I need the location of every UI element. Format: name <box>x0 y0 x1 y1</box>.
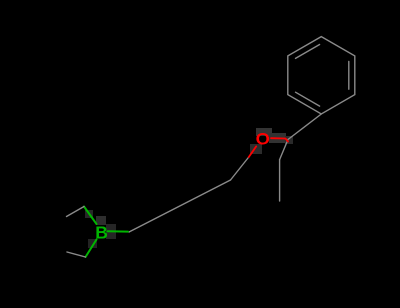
jpeg artifact blocks near O <box>250 128 293 154</box>
ring double bond inner line (right edge) <box>348 61 350 89</box>
lower ethyl terminal bond <box>67 252 86 257</box>
bond benzylic C to CH2 (down-left) <box>280 140 288 160</box>
svg-text:O: O <box>256 129 271 148</box>
svg-text:B: B <box>95 222 108 242</box>
bond B to lower ethyl CH2 <box>86 240 97 258</box>
upper ethyl terminal bond <box>67 207 85 217</box>
ring double bond inner line (UL-T) <box>296 45 320 59</box>
long chain bond to C1 <box>129 180 231 232</box>
bond B to C1 (green) <box>108 230 129 232</box>
jpeg artifact blocks near B <box>85 210 116 248</box>
bond B to upper ethyl CH2 <box>84 207 97 225</box>
benzene ring C6H5 <box>288 37 355 114</box>
bond benzylic C to ring <box>288 114 321 140</box>
ring double bond inner line (B-LL) <box>296 92 320 106</box>
propyl vertical bond <box>279 160 281 201</box>
bond O to chain (red half) <box>249 146 256 157</box>
chain bond O-CH2 continuation (gray part) <box>231 157 249 180</box>
bond O to benzylic C (red) <box>271 138 288 141</box>
